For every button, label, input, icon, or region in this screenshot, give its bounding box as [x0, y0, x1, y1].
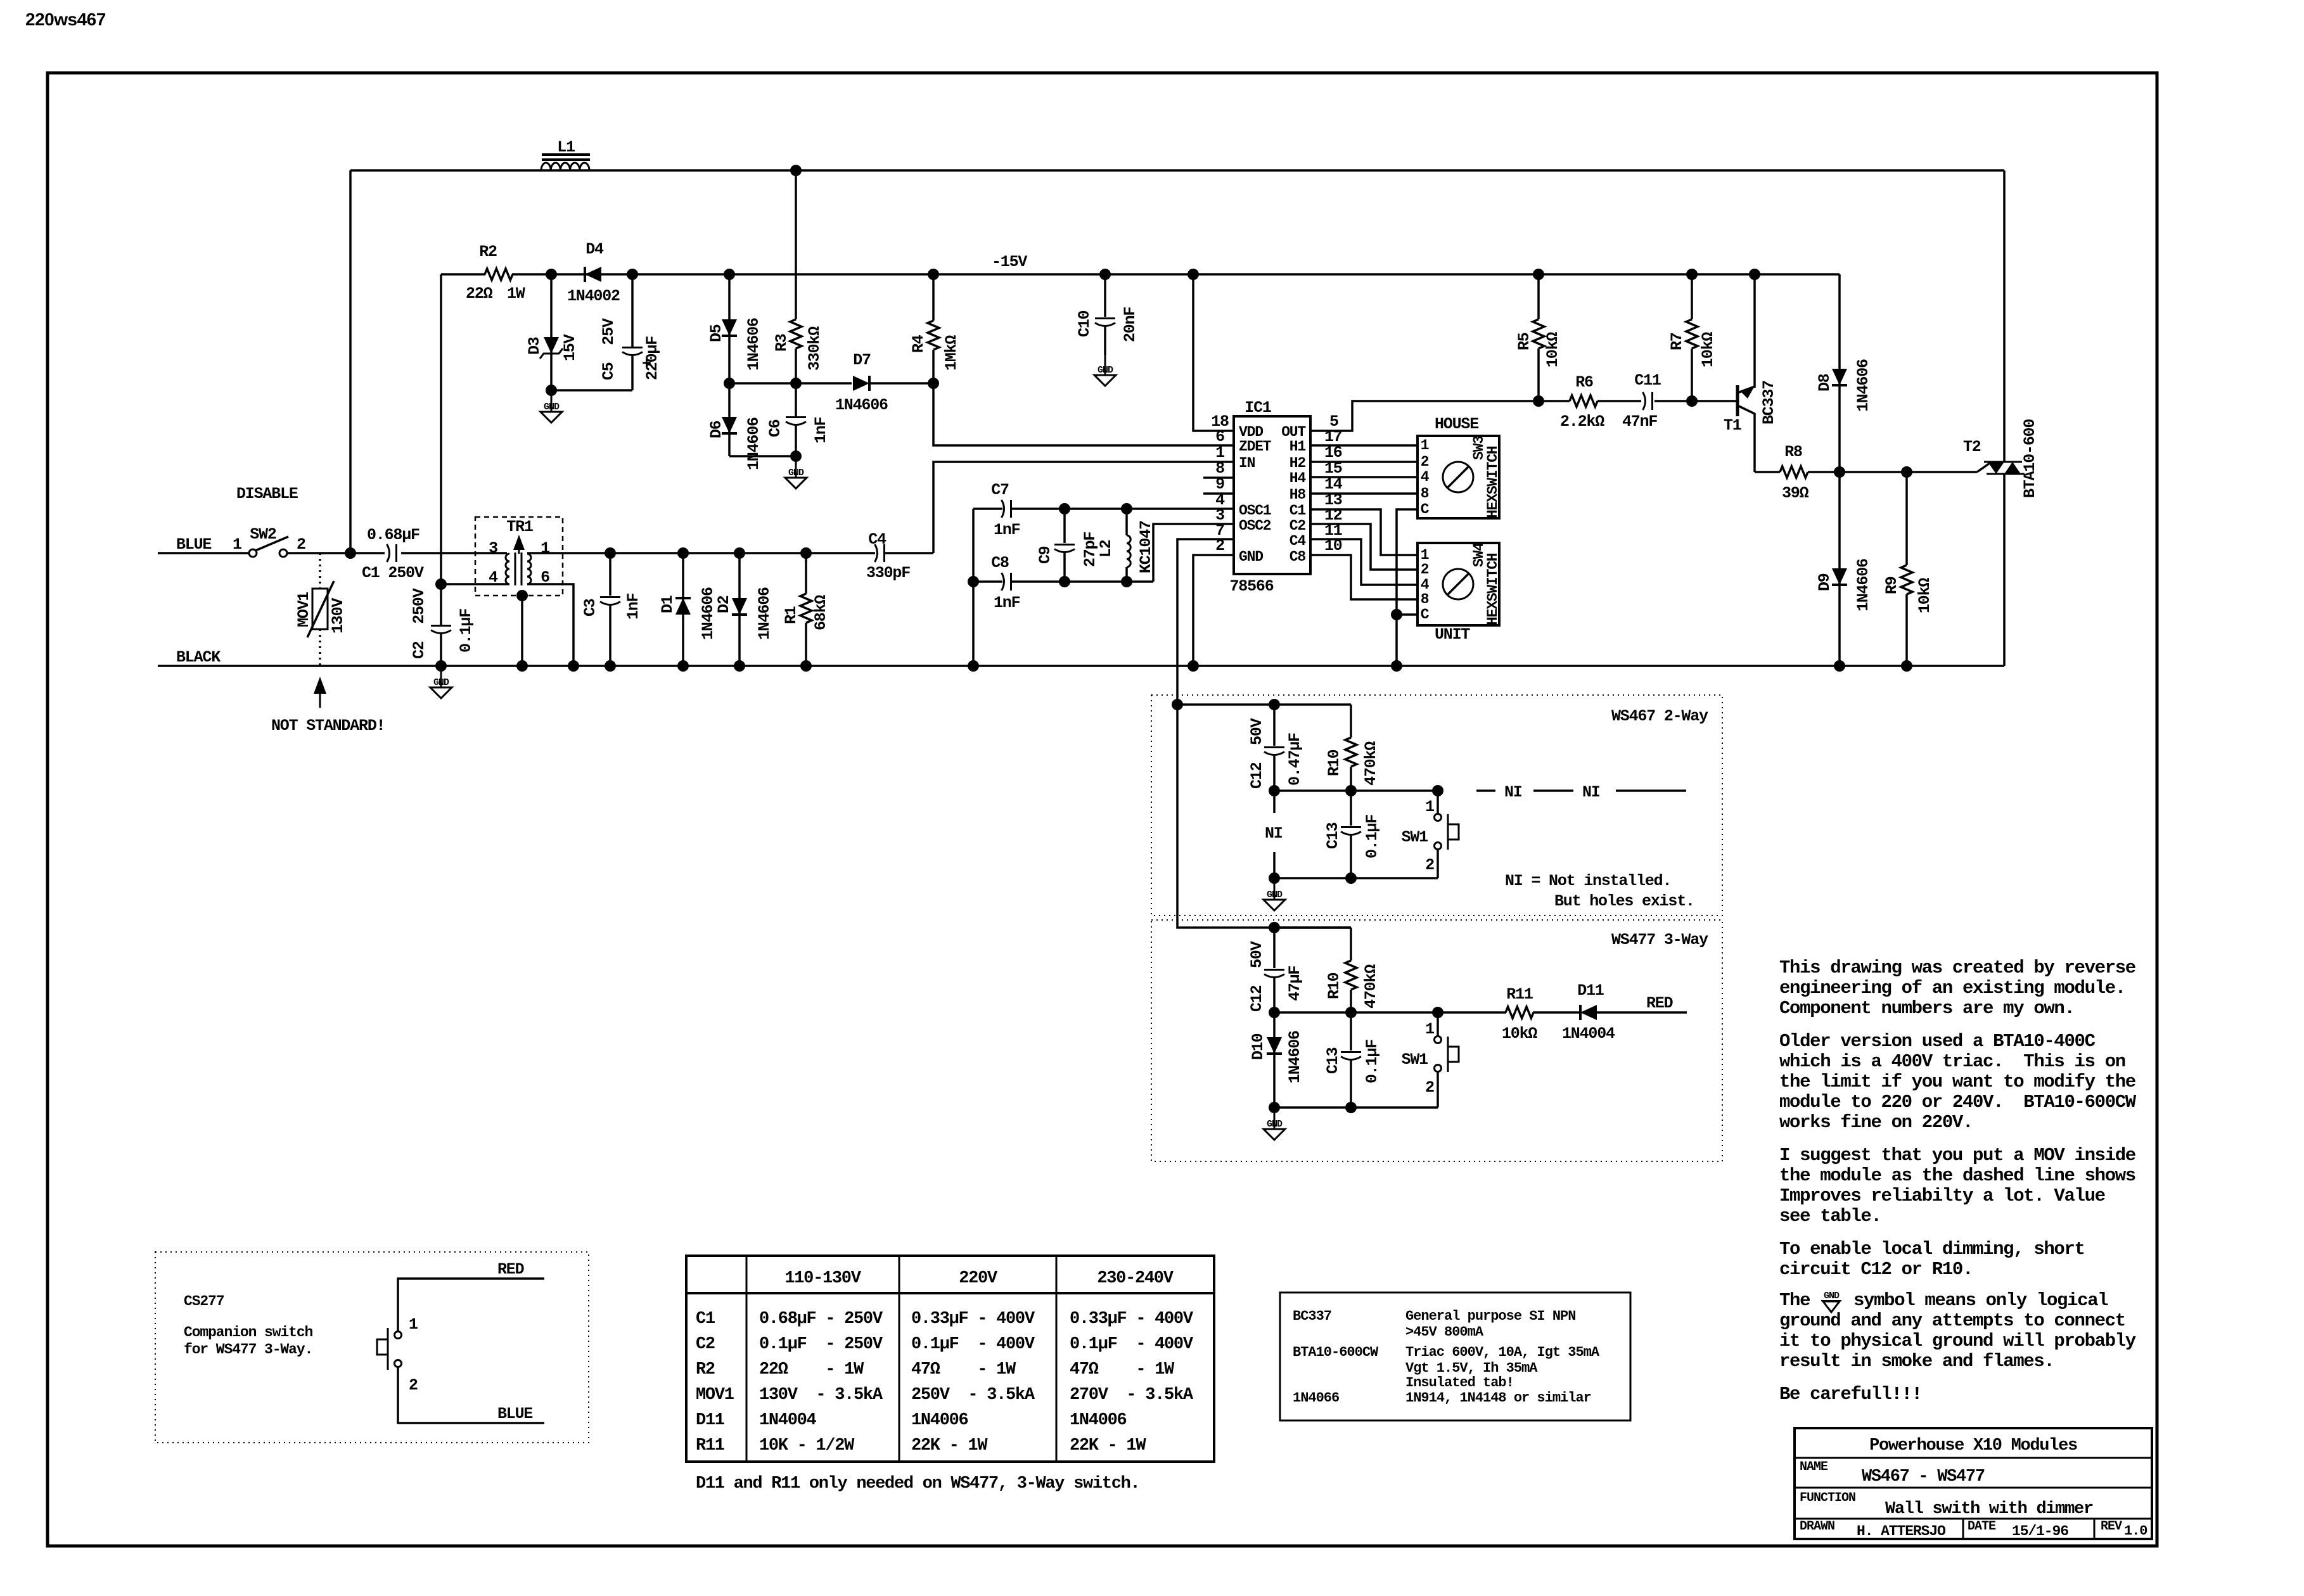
wire BLACK rail	[158, 665, 2004, 667]
svg-text:4: 4	[1421, 469, 1430, 485]
svg-text:1N4006: 1N4006	[911, 1411, 968, 1430]
node junction dots -15V rail	[546, 269, 557, 280]
svg-text:C2: C2	[1290, 518, 1306, 534]
capacitor C3 1nF	[609, 553, 611, 596]
ground under C6	[795, 457, 797, 478]
svg-text:C1: C1	[696, 1310, 715, 1329]
capacitor C1 0.68uF	[387, 544, 390, 562]
svg-text:GND: GND	[1098, 365, 1113, 376]
svg-text:1N4606: 1N4606	[745, 418, 763, 470]
svg-text:GND: GND	[1824, 1291, 1840, 1301]
svg-text:0.33μF - 400V: 0.33μF - 400V	[1070, 1310, 1194, 1329]
wire T2 right vertical	[2003, 170, 2006, 462]
svg-text:I suggest that you put a MOV i: I suggest that you put a MOV inside	[1779, 1145, 2135, 1166]
svg-text:0.1μF: 0.1μF	[457, 609, 475, 653]
svg-text:68kΩ: 68kΩ	[812, 595, 830, 630]
svg-text:1N4606: 1N4606	[1854, 559, 1872, 611]
switch SW1 3way	[1437, 1012, 1439, 1036]
svg-text:10kΩ: 10kΩ	[1544, 332, 1562, 367]
svg-text:C5 25V: C5 25V	[599, 318, 618, 380]
svg-text:330kΩ: 330kΩ	[805, 326, 824, 371]
svg-text:circuit C12 or R10.: circuit C12 or R10.	[1779, 1259, 1973, 1280]
svg-text:1N4606: 1N4606	[1854, 359, 1872, 412]
wire 2-way NI segments	[1476, 789, 1495, 792]
svg-text:C4: C4	[1290, 533, 1307, 549]
svg-text:47μF: 47μF	[1286, 966, 1304, 1001]
resistor R3	[795, 170, 797, 319]
svg-text:module to 220 or 240V. BTA10-: module to 220 or 240V. BTA10-600CW	[1779, 1092, 2137, 1113]
svg-text:DATE: DATE	[1968, 1519, 1996, 1534]
svg-text:22K - 1W: 22K - 1W	[1070, 1436, 1146, 1455]
svg-text:D6: D6	[707, 421, 726, 438]
svg-text:Triac 600V, 10A, Igt 35mA: Triac 600V, 10A, Igt 35mA	[1405, 1344, 1600, 1360]
svg-text:C: C	[1421, 501, 1430, 518]
svg-text:C9: C9	[1036, 546, 1054, 564]
svg-text:>45V 800mA: >45V 800mA	[1405, 1324, 1484, 1340]
ground 3-way	[1274, 1109, 1276, 1129]
svg-text:D2: D2	[715, 596, 733, 613]
svg-text:NOT STANDARD!: NOT STANDARD!	[271, 717, 385, 735]
svg-text:10kΩ: 10kΩ	[1699, 332, 1717, 367]
svg-text:C1: C1	[1290, 502, 1306, 519]
svg-text:BC337: BC337	[1293, 1308, 1331, 1324]
svg-text:22Ω - 1W: 22Ω - 1W	[759, 1360, 864, 1379]
svg-text:1: 1	[409, 1315, 418, 1334]
svg-text:Wall swith with dimmer: Wall swith with dimmer	[1885, 1500, 2093, 1519]
svg-text:270V - 3.5kA: 270V - 3.5kA	[1070, 1386, 1194, 1405]
svg-text:R10: R10	[1325, 973, 1343, 999]
svg-text:R3: R3	[772, 334, 791, 352]
svg-text:H2: H2	[1290, 455, 1306, 471]
svg-text:NI = Not installed.: NI = Not installed.	[1505, 872, 1671, 890]
wire 2-way top rail	[1177, 703, 1351, 706]
arrow NOT STANDARD	[319, 692, 321, 708]
svg-text:R4: R4	[909, 335, 928, 353]
svg-text:470kΩ: 470kΩ	[1362, 964, 1380, 1009]
svg-text:0.68μF: 0.68μF	[367, 526, 419, 544]
wire 3-way top rail	[1274, 926, 1351, 929]
capacitor C12 2way 0.47uF	[1273, 705, 1276, 746]
wire 2-way bottom rail	[1274, 877, 1438, 879]
diode D4	[585, 267, 601, 282]
svg-text:C10: C10	[1075, 310, 1094, 337]
svg-text:47Ω - 1W: 47Ω - 1W	[911, 1360, 1016, 1379]
svg-text:Vgt 1.5V, Ih 35mA: Vgt 1.5V, Ih 35mA	[1405, 1360, 1538, 1376]
svg-text:130V: 130V	[329, 598, 347, 634]
wire H4 row	[1310, 476, 1418, 478]
svg-text:220ws467: 220ws467	[25, 10, 106, 29]
svg-text:R11: R11	[1506, 985, 1533, 1004]
svg-text:GND: GND	[1267, 1119, 1283, 1130]
svg-text:H4: H4	[1290, 470, 1307, 487]
svg-text:SW1: SW1	[1402, 1050, 1428, 1069]
svg-text:110-130V: 110-130V	[784, 1269, 861, 1288]
wire ZDET row D5-D7	[729, 382, 852, 385]
svg-text:the limit if you want to modif: the limit if you want to modify the	[1779, 1071, 2135, 1092]
svg-text:C12 50V: C12 50V	[1248, 941, 1266, 1012]
svg-text:0.1μF: 0.1μF	[1363, 815, 1381, 859]
svg-text:D11 and R11 only needed on WS4: D11 and R11 only needed on WS477, 3-Way …	[696, 1474, 1139, 1493]
svg-text:D11: D11	[696, 1411, 725, 1430]
svg-text:D1: D1	[658, 596, 677, 613]
svg-text:NI: NI	[1582, 783, 1600, 801]
svg-text:DISABLE: DISABLE	[236, 485, 298, 503]
wire -15V rail	[441, 273, 485, 276]
svg-text:But holes exist.: But holes exist.	[1554, 892, 1694, 910]
wire D3-C5 bottom rail	[551, 389, 632, 392]
resistor R11	[1506, 1007, 1533, 1018]
svg-text:1N4002: 1N4002	[567, 287, 620, 305]
capacitor C4 330pF	[875, 544, 878, 562]
svg-text:result in smoke and flames.: result in smoke and flames.	[1779, 1351, 2054, 1372]
svg-text:it to physical ground will pro: it to physical ground will probably	[1779, 1331, 2136, 1351]
svg-text:0.1μF: 0.1μF	[1363, 1040, 1381, 1083]
transistor T1 BC337	[1736, 385, 1739, 416]
svg-text:the module as the dashed line: the module as the dashed line shows	[1779, 1165, 2135, 1186]
svg-text:ZDET: ZDET	[1239, 438, 1272, 455]
svg-text:10K - 1/2W: 10K - 1/2W	[759, 1436, 855, 1455]
svg-text:see table.: see table.	[1779, 1206, 1881, 1227]
svg-text:engineering of an existing mod: engineering of an existing module.	[1779, 978, 2125, 999]
svg-text:22K - 1W: 22K - 1W	[911, 1436, 988, 1455]
svg-text:130V - 3.5kA: 130V - 3.5kA	[759, 1386, 883, 1405]
wire 2-way mid rail	[1274, 789, 1438, 792]
svg-text:C11: C11	[1634, 371, 1661, 390]
diode D10	[1273, 1012, 1276, 1108]
wire 3-way bottom rail	[1274, 1106, 1438, 1109]
svg-text:2.2kΩ: 2.2kΩ	[1560, 412, 1604, 431]
svg-text:R6: R6	[1575, 373, 1593, 392]
wire pin9 stub	[1203, 492, 1234, 495]
svg-text:IN: IN	[1239, 455, 1255, 471]
diode D7	[853, 376, 869, 391]
ground under C2 on BLACK rail	[440, 667, 442, 687]
diode D8	[1838, 274, 1841, 472]
svg-text:D7: D7	[853, 351, 871, 369]
svg-text:1nF: 1nF	[812, 417, 830, 444]
wire C8 pin10 to UNIT row8	[1310, 555, 1418, 599]
svg-text:D3: D3	[525, 337, 544, 355]
svg-text:2: 2	[1425, 856, 1434, 874]
wire SW2 to C1	[287, 552, 350, 554]
svg-text:C2: C2	[696, 1335, 715, 1354]
wire VDD pin18 to -15V rail	[1193, 274, 1234, 431]
svg-text:10kΩ: 10kΩ	[1502, 1025, 1537, 1043]
wire CS277 RED lead	[398, 1279, 544, 1331]
wire pin8 stub	[1203, 476, 1234, 479]
ground under C10	[1104, 355, 1106, 375]
resistor R5	[1537, 274, 1540, 319]
svg-text:This drawing was created by re: This drawing was created by reverse	[1779, 957, 2135, 978]
svg-text:0.1μF - 400V: 0.1μF - 400V	[911, 1335, 1035, 1354]
svg-text:10kΩ: 10kΩ	[1916, 578, 1934, 613]
svg-text:D10: D10	[1249, 1033, 1267, 1060]
wire OUT pin5 to R6 row	[1310, 401, 1537, 431]
svg-text:BTA10-600: BTA10-600	[2021, 419, 2039, 498]
svg-text:230-240V: 230-240V	[1097, 1269, 1174, 1288]
svg-text:R2: R2	[696, 1360, 715, 1379]
svg-text:GND: GND	[544, 402, 560, 412]
svg-text:1N4066: 1N4066	[1293, 1390, 1339, 1406]
dashed box WS477 3-Way	[1151, 920, 1722, 1161]
resistor R2	[485, 269, 513, 280]
svg-text:1N4606: 1N4606	[745, 318, 763, 371]
svg-text:-15V: -15V	[992, 253, 1027, 271]
diode D11	[1580, 1005, 1597, 1020]
wire ZDET to IC pin6	[933, 383, 1234, 445]
svg-text:C2 250V: C2 250V	[410, 588, 428, 659]
svg-text:1nF: 1nF	[624, 593, 643, 620]
svg-text:GND: GND	[1239, 549, 1263, 565]
svg-text:C12 50V: C12 50V	[1248, 718, 1266, 789]
wire C4 pin11 to UNIT row4	[1310, 539, 1418, 585]
svg-text:H. ATTERSJO: H. ATTERSJO	[1857, 1523, 1945, 1540]
svg-text:L2: L2	[1097, 540, 1115, 558]
svg-text:2: 2	[1425, 1078, 1434, 1097]
svg-text:Older version used a BTA10-400: Older version used a BTA10-400C	[1779, 1031, 2096, 1052]
svg-text:SW2: SW2	[250, 525, 276, 544]
svg-text:C4: C4	[868, 530, 886, 549]
svg-text:C7: C7	[991, 481, 1009, 499]
wire OSC2 to C8 rail	[1153, 524, 1234, 582]
svg-text:D4: D4	[586, 240, 604, 259]
svg-text:330pF: 330pF	[866, 564, 910, 582]
wire HOUSE common C row	[1397, 509, 1418, 666]
svg-text:C3: C3	[581, 599, 599, 616]
svg-text:47Ω - 1W: 47Ω - 1W	[1070, 1360, 1175, 1379]
svg-text:1.0: 1.0	[2124, 1523, 2147, 1539]
svg-text:1N4606: 1N4606	[835, 396, 888, 414]
svg-text:1N4606: 1N4606	[755, 587, 774, 640]
capacitor C13 3way 0.1uF	[1350, 1012, 1352, 1050]
svg-text:Companion switch: Companion switch	[184, 1324, 313, 1341]
svg-text:BLACK: BLACK	[176, 648, 221, 667]
svg-text:IC1: IC1	[1245, 399, 1271, 417]
svg-text:1: 1	[541, 539, 549, 558]
diode D9	[1838, 472, 1841, 666]
svg-text:HEXSWITCH: HEXSWITCH	[1485, 446, 1501, 518]
hexswitch SW4 UNIT	[1418, 543, 1499, 625]
svg-text:1MkΩ: 1MkΩ	[942, 335, 961, 371]
title block frame	[1795, 1428, 2152, 1539]
svg-text:1: 1	[1425, 798, 1434, 816]
svg-text:BLUE: BLUE	[497, 1405, 532, 1423]
capacitor C2 0.1uF	[440, 584, 442, 625]
wire DISABLE vertical	[349, 170, 352, 553]
svg-text:H8: H8	[1290, 487, 1306, 503]
capacitor C12 3way 47uF	[1273, 928, 1276, 968]
svg-text:1N4004: 1N4004	[759, 1411, 817, 1430]
svg-text:SW1: SW1	[1402, 828, 1428, 846]
svg-text:0.33μF - 400V: 0.33μF - 400V	[911, 1310, 1035, 1329]
svg-text:1: 1	[233, 535, 241, 554]
svg-text:RED: RED	[497, 1260, 525, 1279]
capacitor C7 1nF	[973, 508, 1002, 510]
resistor R10 2way	[1350, 705, 1352, 737]
capacitor C13 2way 0.1uF	[1350, 791, 1352, 826]
transformer TR1	[475, 517, 563, 596]
wire top AC rail	[350, 169, 2004, 172]
svg-text:78566: 78566	[1229, 577, 1273, 596]
svg-text:HEXSWITCH: HEXSWITCH	[1485, 553, 1501, 625]
svg-text:D5: D5	[707, 324, 726, 342]
svg-text:0.1μF - 400V: 0.1μF - 400V	[1070, 1335, 1194, 1354]
svg-text:Powerhouse X10 Modules: Powerhouse X10 Modules	[1869, 1436, 2077, 1455]
svg-text:GND: GND	[1267, 890, 1283, 900]
svg-text:39Ω: 39Ω	[1782, 484, 1809, 502]
svg-text:2: 2	[1421, 454, 1429, 470]
svg-text:1: 1	[1421, 437, 1429, 454]
svg-text:C13: C13	[1324, 1047, 1342, 1074]
svg-text:R11: R11	[696, 1436, 725, 1455]
svg-text:1N4004: 1N4004	[1562, 1025, 1615, 1043]
svg-text:R7: R7	[1668, 333, 1686, 350]
svg-text:RED: RED	[1646, 994, 1674, 1012]
svg-text:C8: C8	[1290, 549, 1306, 565]
svg-text:22Ω: 22Ω	[466, 284, 493, 303]
svg-text:3: 3	[489, 539, 497, 558]
diode D6	[728, 383, 731, 456]
svg-text:D8: D8	[1815, 374, 1834, 392]
wire IC GND pin2 to BLACK	[1193, 555, 1234, 666]
svg-text:2: 2	[297, 535, 305, 554]
svg-text:DRAWN: DRAWN	[1800, 1519, 1834, 1534]
ground under D3	[551, 392, 553, 412]
svg-text:symbol means only logical: symbol means only logical	[1853, 1290, 2108, 1311]
capacitor C6 1nF	[795, 383, 797, 416]
dashed box CS277 companion switch	[155, 1252, 589, 1443]
svg-text:47nF: 47nF	[1622, 412, 1657, 431]
svg-text:for WS477 3-Way.: for WS477 3-Way.	[184, 1341, 312, 1358]
resistor R6	[1539, 400, 1570, 402]
node junction dots BLACK rail	[435, 660, 447, 672]
wire D6-C6 bottom rail	[729, 455, 796, 457]
ground 2-way	[1274, 879, 1276, 900]
svg-text:OSC1: OSC1	[1239, 502, 1271, 519]
svg-text:works fine on 220V.: works fine on 220V.	[1779, 1112, 1973, 1133]
svg-text:R10: R10	[1325, 750, 1343, 776]
svg-text:220V: 220V	[959, 1269, 998, 1288]
svg-text:470kΩ: 470kΩ	[1362, 741, 1380, 786]
svg-text:8: 8	[1421, 591, 1429, 608]
svg-text:which is a 400V triac. This i: which is a 400V triac. This is on	[1779, 1051, 2125, 1072]
svg-text:WS477 3-Way: WS477 3-Way	[1611, 931, 1708, 949]
triac T2 BTA10-600	[1977, 463, 1990, 472]
svg-text:UNIT: UNIT	[1435, 625, 1470, 644]
svg-text:MOV1: MOV1	[295, 592, 313, 627]
zener diode D3	[550, 274, 553, 390]
dashed box WS467 2-Way	[1151, 695, 1722, 916]
svg-text:220μF: 220μF	[643, 336, 662, 380]
svg-text:1W: 1W	[507, 284, 525, 303]
svg-text:2: 2	[1421, 561, 1429, 578]
wire H1 row	[1310, 444, 1418, 447]
wire TR1 pin4 row	[441, 583, 509, 585]
wire TR1 pin1 row BLUE to C4	[527, 552, 875, 554]
svg-text:20nF: 20nF	[1121, 307, 1139, 342]
capacitor C5 220uF	[631, 274, 634, 347]
wire UNIT common C row	[1397, 613, 1418, 616]
svg-text:8: 8	[1421, 485, 1429, 502]
svg-text:1nF: 1nF	[994, 594, 1020, 612]
resistor R4	[932, 274, 935, 321]
svg-text:15V: 15V	[561, 334, 579, 361]
capacitor C8 1nF	[973, 580, 1002, 583]
svg-text:To enable local dimming, short: To enable local dimming, short	[1779, 1239, 2085, 1260]
svg-text:NAME: NAME	[1800, 1460, 1828, 1474]
svg-text:R1: R1	[782, 606, 800, 624]
svg-text:GND: GND	[788, 468, 804, 478]
capacitor C11 47nF	[1643, 392, 1646, 410]
svg-text:BC337: BC337	[1760, 381, 1778, 425]
svg-text:0.68μF - 250V: 0.68μF - 250V	[759, 1310, 883, 1329]
parts note box BC337 BTA10 1N4066	[1280, 1293, 1630, 1420]
svg-text:NI: NI	[1504, 783, 1522, 801]
svg-text:FUNCTION: FUNCTION	[1800, 1491, 1855, 1505]
svg-text:OSC2: OSC2	[1239, 518, 1271, 534]
svg-text:The: The	[1779, 1290, 1810, 1311]
wire C1 pin13 to UNIT row1	[1310, 509, 1418, 555]
inductor L2 KC1047	[1125, 509, 1128, 535]
svg-text:Improves reliabilty a lot. Val: Improves reliabilty a lot. Value	[1779, 1185, 2105, 1206]
svg-text:0.1μF - 250V: 0.1μF - 250V	[759, 1335, 883, 1354]
svg-text:R2: R2	[479, 243, 497, 261]
svg-text:D9: D9	[1815, 573, 1834, 591]
svg-text:C: C	[1421, 606, 1430, 623]
svg-text:2: 2	[409, 1376, 418, 1395]
svg-text:0.47μF: 0.47μF	[1286, 733, 1304, 786]
wire C7 C8 left ground rail	[972, 509, 975, 666]
capacitor C9 27pF	[1063, 509, 1066, 543]
wire H2 row	[1310, 461, 1418, 463]
svg-text:KC1047: KC1047	[1137, 521, 1155, 573]
svg-text:Insulated tab!: Insulated tab!	[1405, 1375, 1514, 1391]
svg-text:1N914, 1N4148 or similar: 1N914, 1N4148 or similar	[1405, 1390, 1591, 1406]
svg-text:C13: C13	[1324, 822, 1342, 849]
svg-text:R8: R8	[1784, 443, 1802, 461]
wire TR1 pin6 to BLACK	[527, 584, 573, 666]
diode D5	[728, 274, 731, 383]
svg-text:CS277: CS277	[184, 1293, 224, 1310]
wire NI vertical not installed C12 bypass	[1273, 791, 1276, 813]
svg-text:250V - 3.5kA: 250V - 3.5kA	[911, 1386, 1035, 1405]
wire H8 row	[1310, 492, 1418, 495]
wire BLUE input	[158, 552, 249, 554]
svg-text:1N4006: 1N4006	[1070, 1411, 1127, 1430]
svg-text:R5: R5	[1515, 333, 1533, 350]
node junction dots BLUE row	[605, 547, 616, 559]
svg-text:C6: C6	[766, 419, 784, 437]
switch SW1 2way	[1437, 791, 1439, 814]
svg-text:1N4606: 1N4606	[1286, 1031, 1304, 1083]
svg-text:General purpose SI NPN: General purpose SI NPN	[1405, 1308, 1575, 1324]
wire C2 pin12 to UNIT row2	[1310, 524, 1418, 570]
capacitor C10 20nF	[1104, 274, 1106, 317]
diode D1	[682, 553, 684, 666]
svg-text:R9: R9	[1883, 577, 1901, 594]
svg-text:MOV1: MOV1	[696, 1386, 734, 1405]
svg-text:T2: T2	[1963, 438, 1981, 456]
table component values	[686, 1256, 1214, 1462]
svg-text:WS467 2-Way: WS467 2-Way	[1611, 707, 1708, 725]
svg-text:BTA10-600CW: BTA10-600CW	[1293, 1344, 1379, 1360]
resistor R9	[1905, 472, 1908, 565]
svg-text:GND: GND	[433, 677, 449, 688]
svg-text:15/1-96: 15/1-96	[2012, 1523, 2068, 1540]
resistor R8	[1755, 471, 1780, 473]
wire C4 to IC pin1 IN	[933, 462, 1234, 553]
resistor R1	[805, 553, 807, 594]
